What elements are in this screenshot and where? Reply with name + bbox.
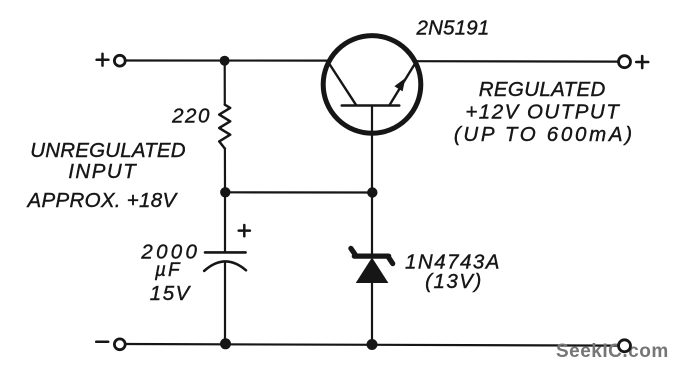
svg-text:µF: µF [154,260,182,281]
junction node top (input rail / resistor) [220,56,230,66]
wire bottom rail [126,344,619,346]
output + terminal circle [619,56,631,68]
svg-text:(UP TO 600mA): (UP TO 600mA) [454,123,635,146]
transistor Q1 emitter diagonal with arrow [390,62,416,104]
capacitor C1 curved bottom plate [204,261,246,270]
junction node bottom-right (zener / bottom rail) [367,339,378,350]
svg-text:SeekIC.com: SeekIC.com [556,341,669,362]
plus sign output [636,56,648,68]
junction node mid-left (resistor / capacitor) [220,187,230,197]
svg-text:INPUT: INPUT [68,160,137,183]
svg-text:220: 220 [171,105,211,128]
transistor Q1 base lead down [371,106,373,193]
zener diode D1 bottom lead [371,282,373,344]
svg-text:(13V): (13V) [425,270,483,293]
svg-text:+12V OUTPUT: +12V OUTPUT [465,100,620,123]
capacitor C1 top plate [205,251,246,254]
output - terminal circle bottom right (over watermark) [619,340,631,352]
transistor Q1 base bar [342,104,399,107]
junction node bottom-left (capacitor / bottom rail) [220,338,231,349]
svg-text:REGULATED: REGULATED [479,78,606,101]
zener diode D1 cathode bar with bent ends [351,248,393,263]
input - terminal circle [114,339,125,350]
capacitor C1 bottom lead [224,262,226,344]
transistor Q1 collector diagonal [328,62,356,106]
wire output (collector to + output terminal) [414,60,618,63]
minus sign input [96,341,108,344]
transistor Q1 2N5191 circle [323,36,421,134]
capacitor C1 top lead [224,192,226,251]
svg-text:15V: 15V [150,282,192,305]
junction node mid-right (base / zener) [367,187,377,197]
wire mid rail (node between resistor, capacitor, zener, base) [225,191,372,193]
svg-text:UNREGULATED: UNREGULATED [30,139,186,162]
transistor Q1 emitter arrowhead [394,78,405,91]
svg-text:APPROX. +18V: APPROX. +18V [26,189,179,212]
capacitor polarity plus sign [239,225,250,236]
plus sign input [97,54,109,66]
svg-text:2N5191: 2N5191 [415,17,489,40]
resistor R1 220 leads and zigzag [224,61,226,105]
zener diode D1 anode triangle [356,258,389,284]
wire top rail [126,59,331,61]
zener diode D1 top lead [371,193,373,255]
input + terminal circle [114,55,125,66]
